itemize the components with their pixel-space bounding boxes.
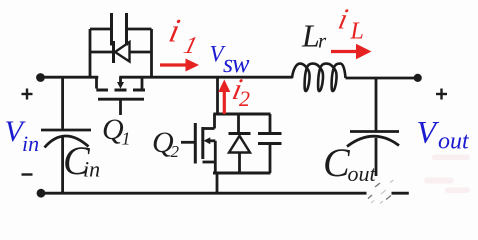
svg-text:L: L [301,18,320,54]
svg-text:L: L [350,19,364,45]
svg-text:2: 2 [239,86,250,111]
svg-text:in: in [83,157,100,182]
svg-text:in: in [22,131,39,156]
svg-text:out: out [348,161,377,186]
svg-text:2: 2 [171,142,180,161]
svg-text:r: r [318,29,327,53]
svg-text:1: 1 [122,129,131,149]
svg-text:out: out [438,129,470,155]
